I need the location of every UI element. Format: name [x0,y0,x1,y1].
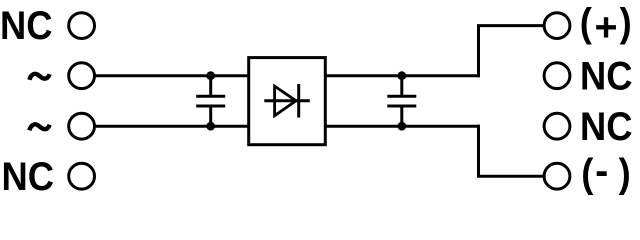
capacitor C2 bottom plate [387,105,416,108]
junction node C1 top [206,71,215,80]
terminal circle right 2 (NC) [544,63,570,89]
label NC right row 2 [580,55,632,99]
wire from rectifier box to jog (top output) [325,74,480,77]
terminal circle left 3 (~) [69,113,95,139]
svg-text:-: - [595,149,608,193]
capacitor C1 top plate [196,95,225,98]
terminal circle right 4 ((-)) [544,163,570,189]
label ~ left row 3 [29,124,49,130]
terminal circle left 2 (~) [69,63,95,89]
label NC left row 1 [0,5,52,49]
label NC right row 3 [580,105,632,149]
label (-) right row 4 [581,149,631,196]
svg-text:NC: NC [0,5,52,49]
wire to (+) terminal [477,24,544,27]
capacitor C2 top lead [400,76,403,95]
label ~ left row 2 [29,74,49,80]
svg-text:(: ( [580,2,592,46]
junction node C2 top [397,71,406,80]
capacitor C2 top plate [387,95,416,98]
wire from left ~ terminal 2 to rectifier box [95,74,249,77]
svg-text:+: + [595,5,618,49]
diode D1 horizontal lead [264,99,310,102]
capacitor C2 bottom lead [400,107,403,126]
capacitor C1 top lead [209,76,212,95]
wire from rectifier box to jog (bottom output) [325,125,480,128]
diode D1 triangle [275,86,296,116]
wire vertical jog down to (-) row [477,125,480,177]
wire to (-) terminal [477,175,544,178]
svg-text:): ) [619,152,631,196]
diode D1 cathode bar [297,84,300,118]
junction node C2 bottom [397,122,406,131]
svg-text:NC: NC [580,105,632,149]
terminal circle right 3 (NC) [544,113,570,139]
svg-text:NC: NC [2,155,54,199]
terminal circle left 1 (NC) [69,13,95,39]
wire vertical jog up to (+) row [477,26,480,78]
capacitor C1 bottom lead [209,107,212,126]
rectifier box U1 [249,58,326,145]
svg-text:(: ( [581,152,593,196]
capacitor C1 bottom plate [196,105,225,108]
wire from left ~ terminal 3 to rectifier box [95,125,249,128]
svg-text:NC: NC [580,55,632,99]
label (+) right row 1 [580,2,632,50]
label NC left row 4 [2,155,54,199]
junction node C1 bottom [206,122,215,131]
terminal circle right 1 ((+)) [544,13,570,39]
svg-text:): ) [620,2,632,46]
terminal circle left 4 (NC) [69,163,95,189]
